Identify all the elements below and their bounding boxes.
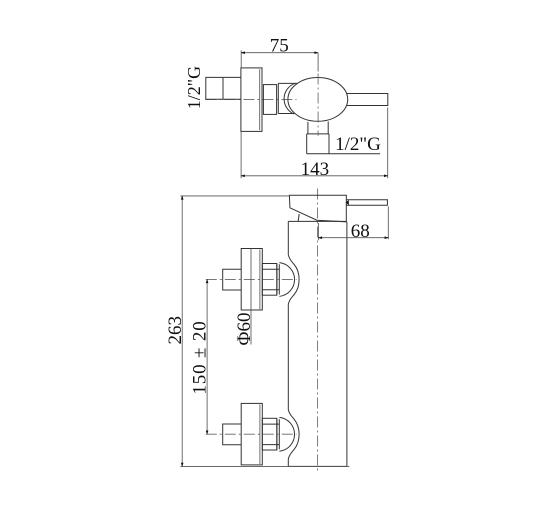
svg-text:68: 68: [351, 221, 370, 242]
svg-text:75: 75: [270, 36, 289, 57]
svg-text:1/2"G: 1/2"G: [335, 134, 381, 155]
svg-text:1/2"G: 1/2"G: [184, 66, 204, 109]
svg-text:263: 263: [165, 316, 186, 345]
svg-text:150 ± 20: 150 ± 20: [190, 320, 211, 394]
svg-text:143: 143: [301, 159, 330, 180]
svg-text:Φ60: Φ60: [234, 313, 255, 346]
